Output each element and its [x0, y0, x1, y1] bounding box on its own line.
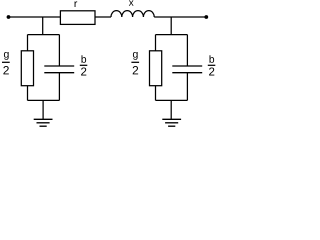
value label g/2 (left)	[2, 52, 10, 74]
wire left shunt bottom bar	[28, 99, 60, 101]
wire left ground lead	[42, 100, 44, 119]
node B terminal dot (right)	[204, 15, 208, 19]
wire right g/2 branch upper	[155, 35, 157, 51]
value label x	[129, 0, 134, 5]
resistor R2 (left shunt conductance)	[21, 51, 33, 86]
wire left b/2 branch upper	[58, 35, 60, 66]
wire right g/2 branch lower	[155, 86, 157, 101]
wire left g/2 branch lower	[27, 86, 29, 101]
wire junction drop right shunt	[170, 17, 172, 35]
wire right ground lead	[170, 100, 172, 119]
wire left shunt top bar	[28, 34, 60, 36]
wire right shunt top bar	[156, 34, 188, 36]
value label b/2 (left)	[80, 55, 88, 75]
wire right b/2 branch upper	[186, 35, 188, 66]
wire junction drop left shunt	[42, 17, 44, 35]
resistor R1 (series)	[60, 11, 95, 25]
value label r	[75, 1, 78, 7]
value label b/2 (right)	[208, 55, 216, 75]
wire top rail: inductor x to right terminal	[154, 16, 206, 18]
wire right b/2 branch lower	[186, 73, 188, 101]
capacitor C2 (right shunt susceptance)	[172, 66, 202, 73]
resistor R3 (right shunt conductance)	[150, 51, 162, 86]
value label g/2 (right)	[131, 52, 139, 74]
wire right shunt bottom bar	[156, 99, 188, 101]
wire top rail: left terminal to resistor r	[9, 16, 61, 18]
node A terminal dot (left)	[7, 15, 11, 19]
wire left g/2 branch upper	[27, 35, 29, 51]
wire top rail: resistor r to inductor x	[95, 16, 111, 18]
wire left b/2 branch lower	[58, 73, 60, 101]
inductor L1 (series reactance)	[111, 11, 154, 17]
ground (right)	[162, 119, 181, 126]
ground (left)	[34, 119, 53, 126]
capacitor C1 (left shunt susceptance)	[44, 66, 74, 73]
